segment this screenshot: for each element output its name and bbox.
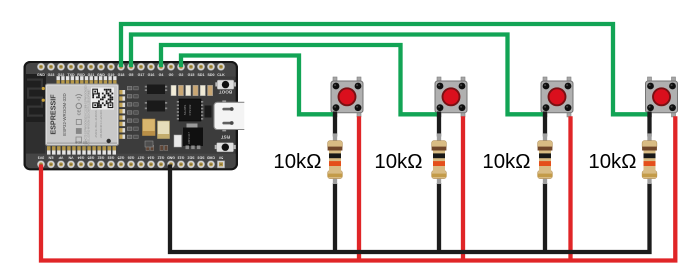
push button S4 bbox=[646, 77, 678, 117]
pin G21 (top 6) bbox=[87, 63, 94, 77]
svg-text:204-820108 R-C-es5-32D: 204-820108 R-C-es5-32D bbox=[100, 110, 103, 138]
module logos bbox=[76, 94, 83, 142]
svg-text:VP: VP bbox=[58, 155, 63, 159]
pin G16 (top 12) bbox=[147, 63, 154, 77]
module side pads bbox=[119, 90, 125, 139]
svg-text:RXD: RXD bbox=[77, 73, 85, 77]
wire button S1 to resistor R1 bbox=[333, 112, 337, 137]
resistor R2 10k leads bbox=[437, 133, 441, 184]
svg-text:GND: GND bbox=[167, 155, 175, 159]
pin 5V (bottom 19) bbox=[217, 155, 224, 168]
svg-text:G19: G19 bbox=[108, 73, 115, 77]
SMD part bbox=[174, 135, 182, 147]
capacitor C1 bbox=[143, 119, 156, 136]
pin G13 (bottom 15) bbox=[177, 155, 184, 168]
svg-text:G33: G33 bbox=[108, 155, 115, 159]
pin EN (bottom 2) bbox=[47, 155, 54, 168]
svg-text:10kΩ: 10kΩ bbox=[273, 151, 321, 173]
push button S2 bbox=[435, 77, 467, 117]
pin CMD (bottom 18) bbox=[207, 155, 216, 168]
USB-UART chip U2 (CP2102) bbox=[177, 99, 203, 121]
svg-text:CE: CE bbox=[76, 109, 81, 115]
resistor R3 (10k) bbox=[538, 141, 553, 179]
wire button S2 to resistor R2 bbox=[437, 112, 441, 137]
svg-text:G5: G5 bbox=[129, 73, 134, 77]
push button S1 bbox=[331, 77, 363, 117]
pin TXD (top 4) bbox=[67, 63, 75, 77]
pin G33 (bottom 8) bbox=[107, 155, 114, 168]
svg-text:G27: G27 bbox=[138, 155, 145, 159]
svg-text:G17: G17 bbox=[138, 73, 145, 77]
pin G17 (top 11) bbox=[137, 63, 144, 77]
svg-text:SD2: SD2 bbox=[188, 155, 195, 159]
via bbox=[42, 87, 45, 90]
svg-text:SILABS: SILABS bbox=[183, 105, 187, 116]
wire GPIO2 wire bbox=[181, 56, 337, 115]
svg-text:G12: G12 bbox=[158, 155, 165, 159]
wire 3V3 power bus bbox=[41, 116, 675, 260]
pin G2 (top 15) bbox=[177, 63, 184, 77]
wire button S4 to resistor R4 bbox=[647, 112, 651, 137]
capacitor C2 bbox=[158, 121, 170, 139]
svg-text:G32: G32 bbox=[98, 155, 105, 159]
svg-text:10kΩ: 10kΩ bbox=[482, 151, 530, 173]
svg-text:G34: G34 bbox=[78, 155, 85, 159]
svg-text:CLK: CLK bbox=[217, 73, 225, 77]
pin G23 (top 2) bbox=[47, 63, 54, 77]
SMD resistor row bbox=[171, 85, 213, 95]
resistor R3 10k leads bbox=[543, 133, 547, 184]
pin GND (bottom 14) bbox=[167, 155, 175, 168]
svg-text:G16: G16 bbox=[148, 73, 155, 77]
svg-text:10kΩ: 10kΩ bbox=[374, 151, 422, 173]
pin G15 (top 16) bbox=[187, 63, 194, 77]
pin G26 (bottom 10) bbox=[127, 155, 134, 168]
resistor R4 10k leads bbox=[647, 133, 651, 184]
wire button S3 to 3V3 bus bbox=[568, 116, 572, 260]
pin SD2 (bottom 16) bbox=[187, 155, 194, 168]
pin VP (bottom 3) bbox=[57, 155, 64, 168]
pin CLK (top 19) bbox=[217, 63, 225, 77]
svg-text:SD1: SD1 bbox=[198, 73, 205, 77]
svg-text:G21: G21 bbox=[88, 73, 95, 77]
pin GND (top 7) bbox=[97, 63, 105, 77]
svg-text:G23: G23 bbox=[48, 73, 55, 77]
SMD part bbox=[145, 141, 153, 147]
svg-text:EN: EN bbox=[48, 155, 53, 159]
svg-text:G4: G4 bbox=[159, 73, 164, 77]
svg-text:MODEL:ESP32-WROOM-32D CMIIT ID: MODEL:ESP32-WROOM-32D CMIIT ID:2018DP568… bbox=[88, 89, 91, 147]
svg-text:TXD: TXD bbox=[67, 73, 75, 77]
svg-text:10kΩ: 10kΩ bbox=[588, 151, 636, 173]
svg-text:G2: G2 bbox=[179, 73, 184, 77]
passive components column bbox=[127, 87, 138, 139]
module castellated pads (bottom) bbox=[47, 146, 116, 154]
pin SD3 (bottom 17) bbox=[197, 155, 204, 168]
voltage regulator U3 (AMS1117) bbox=[183, 124, 203, 150]
svg-text:3V3: 3V3 bbox=[38, 155, 44, 159]
svg-text:ESPRESSIF: ESPRESSIF bbox=[49, 94, 58, 135]
svg-text:G0: G0 bbox=[169, 73, 174, 77]
svg-text:SD0: SD0 bbox=[208, 73, 215, 77]
pin G0 (top 14) bbox=[167, 63, 174, 77]
pin SD1 (top 17) bbox=[197, 63, 204, 77]
via bbox=[42, 99, 45, 102]
wire button S3 to resistor R3 bbox=[543, 112, 547, 137]
svg-text:GND: GND bbox=[97, 73, 105, 77]
ESP32 DevKitC board bbox=[24, 61, 239, 170]
svg-text:BOOT: BOOT bbox=[219, 89, 232, 94]
wire resistor R2 to GND bus bbox=[437, 183, 441, 252]
pin G27 (bottom 11) bbox=[137, 155, 144, 168]
pin G18 (top 9) bbox=[117, 63, 124, 77]
svg-text:G22: G22 bbox=[58, 73, 65, 77]
resistor R1 10k leads bbox=[333, 133, 337, 184]
wire resistor R1 to GND bus bbox=[333, 183, 337, 252]
ESP32-WROOM-32D module U1 bbox=[46, 84, 119, 146]
pin VN (bottom 4) bbox=[67, 155, 74, 168]
svg-text:G13: G13 bbox=[178, 155, 185, 159]
pin GND (top 1) bbox=[37, 63, 45, 77]
pin G35 (bottom 6) bbox=[87, 155, 94, 168]
pin SD0 (top 18) bbox=[207, 63, 214, 77]
push button S3 bbox=[541, 77, 573, 117]
pin G4 (top 13) bbox=[157, 63, 164, 77]
svg-text:ANATEL 05111-18-08716: ANATEL 05111-18-08716 bbox=[95, 110, 98, 138]
pin G25 (bottom 9) bbox=[117, 155, 124, 168]
pin G14 (bottom 12) bbox=[147, 155, 154, 168]
wire GPIO4 wire bbox=[161, 45, 441, 114]
svg-text:ESP32-WROOM-32D: ESP32-WROOM-32D bbox=[62, 93, 67, 135]
module castellated pads (top) bbox=[57, 76, 117, 84]
BOOT button bbox=[215, 80, 236, 94]
pin 3V3 (bottom 1) bbox=[37, 155, 44, 168]
svg-text:G25: G25 bbox=[118, 155, 125, 159]
wire button S2 to 3V3 bus bbox=[461, 116, 465, 260]
svg-text:G18: G18 bbox=[118, 73, 125, 77]
module regulatory text bbox=[85, 85, 104, 151]
svg-text:G14: G14 bbox=[148, 155, 155, 159]
resistor R4 (10k) bbox=[642, 141, 657, 179]
module bottom marks bbox=[75, 139, 111, 145]
small IC bbox=[205, 106, 212, 118]
IC Q1 bbox=[145, 85, 167, 95]
wire GPIO5 wire bbox=[131, 35, 546, 115]
svg-text:VN: VN bbox=[68, 155, 73, 159]
wire GND bus bbox=[170, 165, 650, 253]
pin G22 (top 3) bbox=[57, 63, 64, 77]
module QR code bbox=[91, 88, 114, 110]
SMD pair cluster bbox=[146, 145, 168, 150]
wire GPIO18 wire bbox=[121, 24, 651, 114]
pin RXD (top 5) bbox=[77, 63, 85, 77]
svg-text:G15: G15 bbox=[188, 73, 195, 77]
pin G12 (bottom 13) bbox=[157, 155, 164, 168]
RST button bbox=[215, 135, 236, 152]
svg-text:⊕ 2A 101: ⊕ 2A 101 bbox=[75, 141, 88, 145]
svg-text:GND: GND bbox=[37, 73, 45, 77]
IC Q2 bbox=[145, 101, 167, 112]
svg-text:G26: G26 bbox=[128, 155, 135, 159]
pin G19 (top 8) bbox=[107, 63, 114, 77]
svg-text:CP2102: CP2102 bbox=[188, 104, 192, 115]
pin G5 (top 10) bbox=[127, 63, 134, 77]
pin G32 (bottom 7) bbox=[97, 155, 104, 168]
svg-text:RST: RST bbox=[221, 135, 230, 140]
svg-text:CMD: CMD bbox=[207, 155, 216, 159]
svg-text:AMS1117: AMS1117 bbox=[187, 132, 191, 144]
svg-text:5V: 5V bbox=[218, 155, 223, 159]
pin G34 (bottom 5) bbox=[77, 155, 84, 168]
wire button S1 to 3V3 bus bbox=[357, 116, 361, 260]
svg-text:SD3: SD3 bbox=[198, 155, 205, 159]
PCB antenna bbox=[26, 74, 46, 122]
wire resistor R3 to GND bus bbox=[543, 183, 547, 252]
resistor R2 (10k) bbox=[432, 141, 447, 179]
resistor R1 (10k) bbox=[328, 141, 343, 179]
svg-text:G35: G35 bbox=[88, 155, 95, 159]
micro-USB connector J1 bbox=[214, 100, 244, 131]
